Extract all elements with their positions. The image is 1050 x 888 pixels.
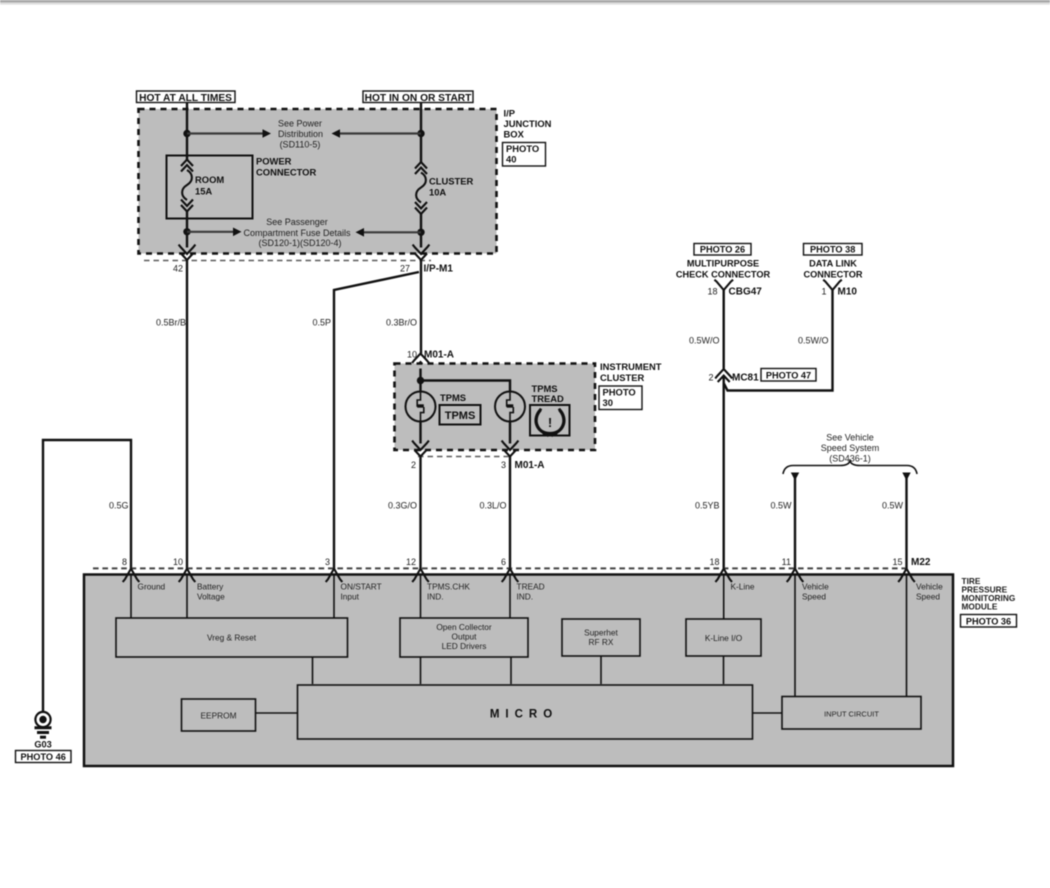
photo label PHOTO 46 [16,751,72,763]
wire lamp2 to cluster pin 3 [509,422,511,444]
svg-text:MICRO: MICRO [490,709,558,721]
label HOT IN ON OR START [363,91,473,104]
wire MICRO to INPUT CIRCUIT [753,712,783,714]
wire pin8 into Vreg [130,575,132,619]
svg-text:M01-A: M01-A [424,350,454,361]
arrow to See Passenger Compartment Fuse Details (from right) [356,228,422,237]
photo label PHOTO 40 [503,143,546,167]
svg-text:POWER: POWER [256,156,292,167]
svg-text:See Power: See Power [278,119,322,129]
fuse CLUSTER 10A [415,162,474,214]
block MICRO [298,685,753,739]
arrow to See Passenger Compartment Fuse Details (from left) [187,228,242,237]
wire 0.3G/O cluster pin2 to module pin12 [388,457,421,569]
TPM module box [84,575,953,767]
note See Vehicle Speed System [821,433,880,464]
arrow to See Power Distribution (from left) [187,129,271,138]
node junction dot right power feed [417,130,424,137]
wire 0.5W vehicle speed right to module pin15 [882,478,907,569]
wire Open Collector to MICRO (left) [420,657,422,684]
svg-text:HOT AT ALL TIMES: HOT AT ALL TIMES [139,93,232,104]
svg-text:CONNECTOR: CONNECTOR [803,270,862,280]
connector pin 10 M01-A (cluster top) [407,350,454,369]
secondary dashed connector line below cluster [418,456,510,458]
svg-text:DATA LINK: DATA LINK [809,259,857,269]
svg-text:HOT IN ON OR START: HOT IN ON OR START [365,93,473,104]
scan edge band at top [0,0,1050,3]
module pin 18 K-Line [709,557,754,592]
svg-text:PHOTO: PHOTO [603,387,636,398]
svg-text:ROOM: ROOM [195,174,224,185]
node junction dot left lower [183,228,190,235]
svg-text:TPMS: TPMS [440,392,466,403]
wire from HOT IN ON OR START into junction box [420,102,422,162]
svg-text:LED Drivers: LED Drivers [442,641,487,651]
module pin 10 Battery Voltage [173,557,225,602]
lamp TPMS TREAD indicator [495,383,564,422]
svg-text:30: 30 [603,397,613,408]
svg-text:See Passenger: See Passenger [266,217,328,227]
svg-text:Vehicle: Vehicle [802,582,829,592]
photo label PHOTO 26 [694,244,751,256]
block EEPROM [182,699,256,731]
lamp TPMS indicator [406,392,467,422]
svg-text:0.5P: 0.5P [312,318,331,328]
svg-text:0.3Br/O: 0.3Br/O [386,318,417,328]
block Open Collector Output LED Drivers [400,618,528,657]
wire 0.3L/O cluster pin3 to module pin6 [479,457,510,569]
wire ground 0.5G module pin8 up and left down to G03 [43,440,131,712]
module connector dashed line [93,567,906,569]
svg-text:Open Collector: Open Collector [436,622,492,632]
svg-text:PHOTO 46: PHOTO 46 [21,752,66,762]
brace vehicle speed system [783,461,917,474]
photo label PHOTO 38 [804,244,863,256]
svg-text:Voltage: Voltage [197,592,225,602]
svg-text:INPUT CIRCUIT: INPUT CIRCUIT [824,710,879,719]
wire pin10 into Vreg [186,575,188,619]
svg-text:IND.: IND. [517,592,534,602]
wire from HOT AT ALL TIMES into junction box [186,102,188,160]
wire 0.5W vehicle speed left to module pin11 [770,478,795,569]
svg-text:Speed System: Speed System [821,443,880,453]
block INPUT CIRCUIT [782,697,921,730]
svg-text:IND.: IND. [427,592,444,602]
svg-text:10: 10 [407,350,417,360]
wire 0.5P branch (diagonal from I/P-M1 down to pin 3) [312,272,419,569]
connector MC81 pin 2 (in-line) [708,369,759,384]
svg-text:2: 2 [708,373,713,383]
svg-text:M10: M10 [838,287,858,298]
node junction dot right lower [417,229,424,236]
wire 0.5W/O M10 down and left to MC81 [724,290,833,391]
block Vreg & Reset [116,618,348,657]
arrow into wire vehicle speed left [791,473,799,481]
wire branch to TPMS TREAD lamp [421,381,511,393]
svg-text:See Vehicle: See Vehicle [826,433,874,443]
svg-text:CBG47: CBG47 [729,287,763,298]
wire 0.3Br/O pin27 to cluster pin10 [386,260,421,354]
svg-text:Superhet: Superhet [584,628,618,638]
photo label PHOTO 30 [599,386,642,410]
svg-text:12: 12 [406,557,416,567]
wire EEPROM to MICRO [256,712,298,714]
svg-text:15: 15 [892,557,902,567]
block Superhet RF RX [562,619,640,656]
wire pin18 into K-Line I/O [723,575,725,620]
wire pin12 into Open Collector [420,575,422,619]
svg-text:0.5W/O: 0.5W/O [689,336,720,346]
svg-text:0.3G/O: 0.3G/O [388,501,417,511]
instrument cluster box (dashed) [395,364,596,451]
svg-text:MULTIPURPOSE: MULTIPURPOSE [687,259,759,269]
svg-text:PHOTO 36: PHOTO 36 [966,617,1011,627]
svg-text:18: 18 [707,287,717,297]
svg-text:TREAD: TREAD [517,582,545,592]
svg-text:MODULE: MODULE [962,602,998,612]
arrow to See Power Distribution (from right) [332,129,422,138]
svg-text:MC81: MC81 [732,373,759,384]
svg-text:M22: M22 [911,557,931,568]
arrow into wire vehicle speed right [902,473,910,481]
wire K-Line I/O to MICRO [723,656,725,684]
module pin 12 TPMS.CHK IND. [406,557,470,602]
svg-text:10A: 10A [429,187,446,198]
wire pin15 into Input Circuit [906,575,908,697]
svg-text:TPMS.CHK: TPMS.CHK [427,582,470,592]
svg-text:M01-A: M01-A [515,460,545,471]
wire pin3 into Vreg [333,575,335,619]
svg-text:42: 42 [173,264,183,274]
svg-text:PHOTO 26: PHOTO 26 [700,245,745,255]
caption TIRE PRESSURE MONITORING MODULE [962,576,1016,612]
ground G03 [34,712,51,750]
svg-text:0.5W: 0.5W [770,501,792,511]
svg-text:PHOTO: PHOTO [506,143,539,154]
connector pin 42 [173,245,195,274]
svg-text:Distribution: Distribution [278,129,323,139]
POWER CONNECTOR box [167,156,317,219]
svg-text:K-Line I/O: K-Line I/O [705,633,743,643]
svg-text:K-Line: K-Line [731,582,755,592]
svg-text:(SD120-1)(SD120-4): (SD120-1)(SD120-4) [258,238,341,248]
svg-text:CONNECTOR: CONNECTOR [256,167,316,178]
wire Open Collector to MICRO (right) [510,657,512,684]
svg-text:I/P-M1: I/P-M1 [424,264,454,275]
svg-text:(SD110-5): (SD110-5) [280,140,321,150]
svg-text:3: 3 [501,460,506,470]
node junction dot left power feed [183,130,190,137]
wire pin11 into Input Circuit [794,575,796,697]
note See Passenger Compartment Fuse Details [243,217,351,248]
svg-text:TPMS: TPMS [445,410,476,422]
module pin 11 Vehicle Speed [782,557,829,602]
label box TPMS [440,405,481,425]
svg-text:Battery: Battery [197,582,224,592]
svg-text:0.5YB: 0.5YB [695,501,720,511]
connector CBG47 pin 18 [707,280,762,298]
svg-text:PHOTO 38: PHOTO 38 [810,245,855,255]
svg-text:1: 1 [821,287,826,297]
svg-text:6: 6 [501,557,506,567]
svg-text:G03: G03 [34,740,51,750]
svg-text:ON/START: ON/START [341,582,382,592]
svg-text:0.5Br/B: 0.5Br/B [156,318,186,328]
caption MULTIPURPOSE CHECK CONNECTOR [676,259,771,280]
connector cluster pin 3 M01-A [501,441,545,471]
connector cluster pin 2 [411,441,429,470]
wire into cluster to node [419,369,421,393]
svg-text:Speed: Speed [802,592,826,602]
svg-text:3: 3 [325,557,330,567]
svg-text:Vreg & Reset: Vreg & Reset [207,633,257,643]
wire Vreg to MICRO [312,657,314,684]
svg-text:Speed: Speed [916,592,940,602]
svg-text:TREAD: TREAD [532,393,565,404]
I/P junction box (dashed) [139,109,497,254]
svg-text:15A: 15A [195,186,212,197]
svg-text:Output: Output [452,632,478,642]
svg-text:CLUSTER: CLUSTER [600,372,645,383]
fuse ROOM 15A [181,160,224,212]
svg-text:Vehicle: Vehicle [916,582,943,592]
svg-text:EEPROM: EEPROM [201,711,237,721]
wire 0.5YB MC81 to module pin18 [695,376,724,569]
svg-text:40: 40 [506,154,516,165]
connector pin 27 I/P-M1 [400,245,453,275]
wire Superhet to MICRO [600,656,602,684]
module pin 8 Ground [122,557,166,592]
svg-text:Input: Input [341,592,360,602]
wire lamp1 to cluster pin 2 [419,422,421,444]
svg-text:BOX: BOX [504,129,525,140]
icon box tire tread warning [530,405,570,437]
svg-text:PHOTO 47: PHOTO 47 [766,371,811,381]
svg-text:0.5W: 0.5W [882,501,904,511]
photo label PHOTO 47 [761,369,816,382]
block K-Line I/O [686,619,761,656]
svg-text:Compartment Fuse Details: Compartment Fuse Details [243,228,351,238]
wire 0.5W/O CBG47 to MC81 [689,290,724,369]
svg-text:0.3L/O: 0.3L/O [479,501,506,511]
module pin 15 Vehicle Speed M22 [892,557,943,602]
svg-text:JUNCTION: JUNCTION [504,118,552,129]
secondary dashed connector line below junction box [144,260,431,262]
svg-text:INSTRUMENT: INSTRUMENT [600,361,662,372]
node cluster branch dot [417,377,424,384]
svg-text:0.5G: 0.5G [109,501,129,511]
svg-text:2: 2 [411,460,416,470]
svg-text:18: 18 [709,557,719,567]
module pin 6 TREAD IND. [501,557,545,602]
svg-text:11: 11 [782,557,791,567]
I/P junction box caption [504,108,552,140]
note See Power Distribution [278,119,323,150]
caption DATA LINK CONNECTOR [803,259,862,280]
connector M10 pin 1 [821,280,857,298]
wire battery feed 0.5Br/B pin42 to module pin10 [156,260,187,569]
svg-text:27: 27 [400,264,410,274]
photo label PHOTO 36 [961,615,1017,628]
module pin 3 ON/START Input [325,557,382,602]
svg-text:8: 8 [122,557,127,567]
svg-text:CLUSTER: CLUSTER [429,176,474,187]
wire fuse CLUSTER to pin 27 [420,214,422,248]
svg-text:Ground: Ground [138,582,166,592]
wire fuse ROOM to pin 42 [186,211,188,248]
svg-text:10: 10 [173,557,183,567]
svg-text:RF RX: RF RX [589,637,614,647]
svg-text:CHECK CONNECTOR: CHECK CONNECTOR [676,270,771,280]
instrument cluster caption [600,361,662,383]
svg-text:0.5W/O: 0.5W/O [798,336,829,346]
wire pin6 into Open Collector [509,575,511,619]
svg-text:I/P: I/P [504,108,515,119]
svg-text:!: ! [548,415,552,430]
label HOT AT ALL TIMES [137,91,236,104]
